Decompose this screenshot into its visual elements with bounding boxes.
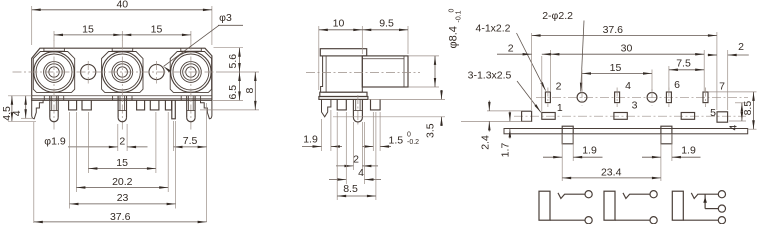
svg-text:2-φ2.2: 2-φ2.2	[542, 10, 573, 22]
svg-text:1.9: 1.9	[681, 144, 696, 156]
svg-text:2: 2	[738, 41, 744, 53]
svg-text:15: 15	[610, 62, 622, 74]
svg-text:2: 2	[119, 135, 125, 147]
svg-text:30: 30	[621, 42, 633, 54]
svg-text:6: 6	[674, 79, 680, 91]
svg-text:4: 4	[358, 167, 364, 179]
svg-text:1.7: 1.7	[500, 143, 512, 158]
svg-text:2: 2	[508, 42, 514, 54]
svg-text:8: 8	[244, 88, 256, 94]
svg-text:0: 0	[407, 132, 411, 139]
svg-text:10: 10	[333, 18, 345, 30]
svg-text:1.9: 1.9	[582, 144, 597, 156]
svg-text:-0.1: -0.1	[456, 10, 463, 22]
svg-text:15: 15	[151, 23, 163, 35]
svg-text:23: 23	[117, 192, 129, 204]
svg-text:3: 3	[632, 100, 638, 112]
svg-text:4: 4	[625, 80, 631, 92]
svg-text:4-1x2.2: 4-1x2.2	[475, 23, 510, 35]
svg-text:15: 15	[116, 157, 128, 169]
svg-text:9.5: 9.5	[379, 18, 394, 30]
svg-text:2: 2	[556, 81, 562, 93]
svg-text:37.6: 37.6	[110, 211, 131, 223]
svg-text:7.5: 7.5	[183, 135, 198, 147]
svg-text:3-1.3x2.5: 3-1.3x2.5	[468, 70, 512, 82]
svg-text:7.5: 7.5	[676, 58, 691, 70]
svg-text:φ1.9: φ1.9	[44, 135, 66, 147]
svg-text:8.5: 8.5	[343, 183, 358, 195]
svg-text:φ8.4: φ8.4	[448, 26, 460, 48]
svg-text:5.6: 5.6	[227, 54, 239, 69]
svg-text:0: 0	[449, 9, 456, 13]
svg-text:23.4: 23.4	[601, 166, 622, 178]
svg-text:8.5: 8.5	[742, 101, 754, 116]
svg-text:5: 5	[710, 107, 716, 119]
svg-text:6.5: 6.5	[227, 85, 239, 100]
svg-text:2.4: 2.4	[479, 135, 491, 150]
svg-text:4: 4	[11, 110, 23, 116]
svg-text:15: 15	[82, 23, 94, 35]
svg-text:φ3: φ3	[219, 12, 232, 24]
svg-text:7: 7	[719, 81, 725, 93]
svg-text:4: 4	[728, 125, 740, 131]
svg-text:2: 2	[353, 154, 359, 166]
svg-text:37.6: 37.6	[603, 24, 624, 36]
svg-text:20.2: 20.2	[112, 176, 133, 188]
svg-text:1: 1	[557, 102, 563, 114]
svg-text:3.5: 3.5	[425, 123, 437, 138]
svg-text:-0.2: -0.2	[407, 139, 419, 146]
svg-text:1.5: 1.5	[389, 135, 404, 147]
svg-text:1.9: 1.9	[303, 134, 318, 146]
svg-text:40: 40	[116, 0, 128, 11]
